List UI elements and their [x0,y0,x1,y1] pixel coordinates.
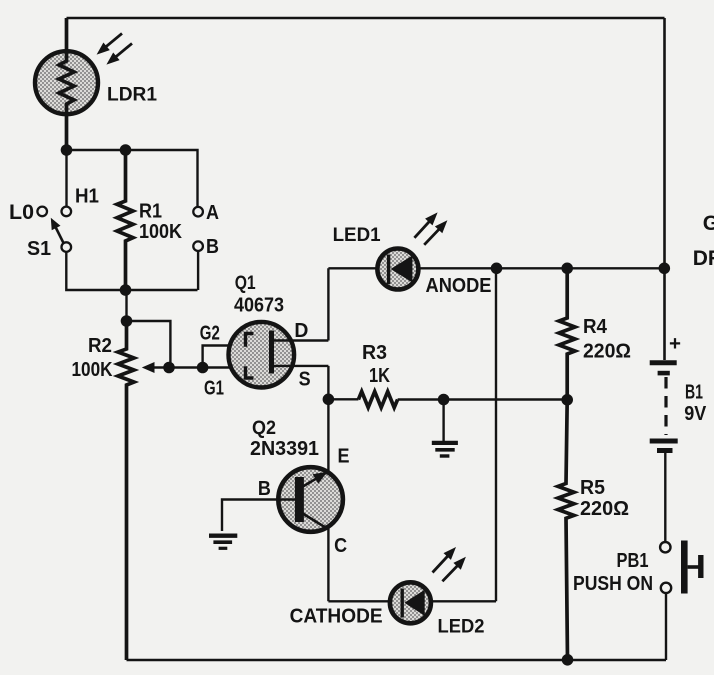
channel bar [269,331,274,374]
svg-text:Q2: Q2 [252,418,276,439]
node junction R3 ground tap [438,394,450,406]
LDR1 light arrow 2 [106,43,132,64]
svg-text:R4: R4 [583,316,608,338]
switch S1 arm [51,218,64,244]
node junction top of R1 [120,144,132,156]
svg-text:B: B [206,236,219,258]
terminal L0 [37,207,47,217]
svg-text:S: S [299,368,311,390]
svg-text:LDR1: LDR1 [107,85,157,106]
svg-text:+: + [669,333,681,355]
svg-text:G2: G2 [200,322,220,344]
svg-text:R3: R3 [362,342,387,364]
wire PB1 to bottom rail [665,593,667,660]
node junction LED row / LED2 riser [491,263,503,275]
LED LED1 [377,249,418,290]
resistor R1 [117,150,133,290]
svg-text:R2: R2 [88,335,112,357]
node junction G2 branch [197,362,209,374]
LDR1 light arrow 1 [97,33,122,54]
svg-text:R5: R5 [580,477,605,499]
node junction bottom of R1 [120,284,132,296]
wire top rail [67,17,665,20]
svg-text:40673: 40673 [234,294,284,316]
wire S1 down to bottom row [66,252,197,290]
svg-text:DR: DR [693,247,714,270]
resistor R4 [559,268,575,400]
ground symbol at Q2 base [209,536,237,549]
source lead [272,365,329,367]
base bar [295,477,304,522]
emitter lead with arrow [302,471,329,487]
svg-text:R1: R1 [139,201,162,223]
wire R2 top tap branch to wiper line [127,321,171,368]
gate G2 bar [246,334,254,347]
collector lead [302,513,327,529]
node junction above R2 [121,315,133,327]
wire LED string riser (LED1 row to LED2 row) [495,268,497,601]
R2 wiper arrow [142,362,169,373]
svg-text:L0: L0 [9,201,34,224]
svg-text:G: G [703,212,714,235]
wire G2 branch [203,346,246,368]
node junction wiper tap [163,362,175,374]
photoresistor LDR1 [35,18,98,148]
svg-text:100K: 100K [139,221,183,243]
svg-text:A: A [206,202,219,224]
terminal B [193,241,203,251]
svg-text:2N3391: 2N3391 [250,438,319,460]
LED2 light arrow 1 [433,547,457,573]
wire LED2 cathode row [328,600,496,602]
LED1 light arrow 1 [414,212,437,237]
svg-text:LED1: LED1 [333,225,381,246]
LED2 light arrow 2 [442,557,466,582]
svg-text:9V: 9V [684,403,707,425]
LED1 light arrow 2 [424,220,447,245]
svg-text:PB1: PB1 [617,550,649,572]
wire top row to terminal A [67,150,198,207]
wire LED1 anode row [328,267,664,269]
svg-text:LED2: LED2 [438,616,485,637]
pushbutton PB1 actuator [681,541,701,594]
pushbutton PB1 terminal top [660,542,670,552]
node junction source/R3/E [323,394,335,406]
LED LED2 [390,582,431,623]
wire right rail top [663,18,666,360]
node junction LED row / right rail [659,263,671,275]
svg-text:C: C [334,535,347,557]
node junction at LDR column and top row [61,144,73,156]
svg-text:CATHODE: CATHODE [290,606,383,628]
svg-text:220Ω: 220Ω [583,341,631,363]
svg-text:E: E [338,446,350,468]
wire source down to R3 node [327,366,329,399]
svg-text:Q1: Q1 [235,273,256,294]
node junction R5 bottom on rail [562,654,574,666]
node junction R4 bottom / R5 top [561,394,573,406]
wire R3 to ground node and R4 bottom [398,398,568,400]
ground symbol at R3 [432,399,458,457]
svg-text:B: B [258,478,271,500]
potentiometer R2 [118,321,134,660]
wire battery negative to PB1 [664,452,666,542]
svg-text:G1: G1 [204,378,224,400]
drain lead [272,339,329,341]
wire drain up to LED1 row [327,268,329,340]
wire base to ground [222,500,295,532]
wire wiper row to Q1 gate G1 [169,366,246,368]
terminal A [193,207,203,217]
wire bottom rail [127,659,667,662]
terminal S1 common [62,242,72,252]
resistor R5 [558,400,574,660]
gate G1 bar [246,366,254,378]
svg-text:ANODE: ANODE [426,275,492,297]
resistor R3 [358,392,397,408]
wire left column R1 bottom to R2 [125,290,127,321]
terminal H1 [62,207,72,217]
svg-text:B1: B1 [685,381,703,403]
svg-text:220Ω: 220Ω [580,498,629,520]
svg-text:H1: H1 [75,186,99,208]
svg-text:1K: 1K [369,365,390,387]
pushbutton PB1 terminal bottom [661,583,671,593]
svg-text:S1: S1 [27,238,51,260]
wire LDR column down to H1 [65,150,67,206]
wire B down to bottom row [197,251,199,290]
transistor Q2 [278,467,343,532]
node junction LED row / R4 [561,263,573,275]
svg-text:D: D [294,320,308,342]
svg-text:PUSH ON: PUSH ON [573,573,653,595]
wire emitter up to source node [327,399,329,471]
battery B1 [650,363,678,451]
MOSFET Q1 [228,322,328,388]
wire collector down to LED2 row [327,529,329,602]
wire R3 row [328,398,358,400]
svg-text:100K: 100K [72,359,113,381]
